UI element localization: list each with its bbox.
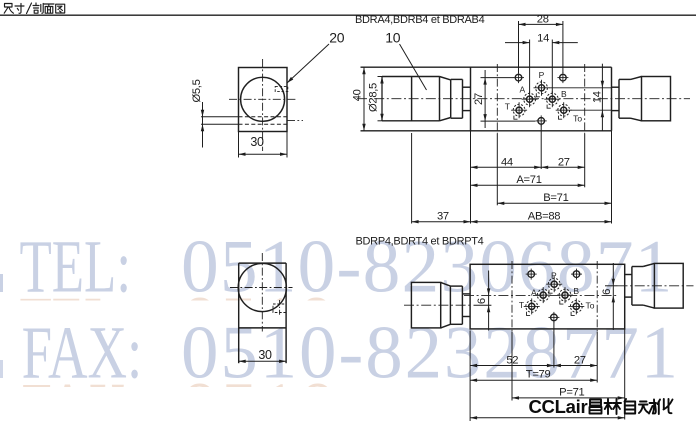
svg-text:28: 28: [537, 14, 549, 26]
bottom left knob taper bottom: [441, 324, 451, 328]
svg-text:14: 14: [537, 32, 549, 44]
bottom right knob neck top: [632, 266, 643, 268]
centerline vertical (top-left block): [262, 59, 264, 151]
arrowheads B=71: [497, 202, 504, 205]
arrowheads dia28.5: [380, 77, 383, 84]
dia28.5 dimension line / knob left face: [381, 77, 383, 121]
main axis top valve: [357, 98, 690, 100]
right knob taper bottom: [631, 118, 642, 121]
arrowheads 44: [471, 166, 478, 169]
arrowheads P=71: [512, 396, 519, 399]
hole extension line lower: [201, 123, 239, 125]
svg-text:27: 27: [558, 156, 570, 168]
arrowheads 6 left: [487, 288, 490, 295]
knob cylinder top (top valve left knob): [382, 76, 440, 78]
port A (top valve): [527, 96, 533, 102]
svg-text:6: 6: [601, 289, 613, 295]
dimension 27 tick lower: [481, 120, 536, 122]
knob section square (top-left block): [239, 68, 288, 132]
lower block dashed detail: [273, 304, 286, 313]
hidden hole line upper (top-left block): [239, 116, 288, 118]
bolt hole bottom (top valve): [538, 118, 545, 125]
company glyph hua (化): [658, 399, 673, 414]
dashed detail on knob circle (top-left): [275, 86, 288, 91]
watermark echo row 2 (faint warm glyph tops): [22, 368, 405, 430]
bottom right knob neck bottom: [632, 304, 643, 306]
svg-text:6: 6: [476, 298, 488, 304]
dimension 30 line (lower block): [239, 360, 286, 362]
svg-text:AB=88: AB=88: [528, 210, 560, 222]
cavity axis left (top valve): [496, 64, 498, 134]
bottom valve cavity axis left: [511, 261, 513, 332]
bottom left knob taper top: [441, 282, 451, 286]
bottom valve cavity axis right: [596, 261, 598, 332]
port P (top valve): [538, 85, 544, 91]
dimension 27 line (bottom valve): [554, 365, 597, 367]
dimension P=71 line: [512, 397, 625, 399]
bottom left knob taper end face: [449, 286, 451, 324]
bottom left knob neck top: [450, 285, 462, 287]
dimension overall line (bottom valve): [470, 417, 625, 419]
arrowheads 30 top block: [239, 153, 246, 156]
arrowheads 6 right: [612, 279, 615, 286]
svg-text:27: 27: [473, 93, 485, 105]
dimension 27 line (below): [541, 166, 585, 168]
extension 37 left: [411, 133, 413, 224]
arrowheads 30 lower block: [239, 360, 246, 363]
lower block horizontal centerline: [230, 287, 293, 289]
dimension 6 left tick (knob axis): [474, 304, 492, 306]
extension cavity right down: [584, 134, 586, 187]
knob cylinder end face: [439, 77, 441, 121]
dimension 30 extension left (top-left block): [238, 132, 240, 158]
dimension 14 right-side line: [601, 64, 603, 131]
bolt hole top-right (top valve): [560, 74, 567, 81]
title glyph cun (寸): [15, 4, 24, 14]
svg-text:P: P: [551, 271, 557, 281]
arrowheads A=71: [471, 184, 478, 187]
right knob collar top (top valve): [612, 86, 620, 88]
svg-text:B=71: B=71: [543, 192, 568, 204]
extension cavity left down (bottom valve): [511, 332, 513, 401]
extension body left face down (bottom valve): [469, 331, 471, 422]
title glyph pou (剖): [33, 3, 43, 13]
svg-text:P: P: [539, 70, 545, 80]
svg-text:CCLair: CCLair: [529, 396, 588, 417]
svg-text:T=79: T=79: [526, 369, 551, 381]
lower block vertical centerline: [261, 253, 263, 332]
svg-text:B: B: [561, 89, 567, 99]
watermark left-edge fragment 1: [0, 274, 3, 292]
dimension 30 line (top-left block): [239, 153, 288, 155]
arrowheads 27 inside body: [483, 78, 486, 85]
hidden hole line lower (top-left block): [239, 123, 288, 125]
lower block circle: [238, 263, 286, 311]
bottom valve body: [470, 264, 625, 329]
taper end face: [450, 80, 452, 118]
dimension 6 right tick (knob axis): [605, 285, 618, 287]
title glyph chi (尺): [4, 4, 13, 14]
watermark echo row 1 (faint warm glyph tops): [20, 282, 402, 365]
bottom left knob axis: [404, 304, 470, 306]
dimension 6 left line: [488, 271, 490, 331]
arrowheads 27 bottom valve: [554, 364, 561, 367]
dimension 52 line: [470, 365, 554, 367]
svg-text:T: T: [519, 300, 524, 310]
dimension AB=88 line: [471, 221, 612, 223]
arrowheads T=79: [470, 379, 477, 382]
extension body left face down: [470, 131, 472, 224]
arrowheads 28: [519, 23, 526, 26]
extension body right face down: [611, 131, 613, 224]
lower block top edge: [239, 262, 286, 264]
dimension 27 line (inside top body): [484, 70, 486, 128]
extension center (bottom bolt) down: [540, 125, 542, 170]
bottom right knob cap: [654, 263, 683, 308]
port B (top valve): [549, 96, 555, 102]
company glyph lin (林): [605, 399, 622, 414]
arrowheads 37: [412, 220, 419, 223]
dimension 28 line: [519, 23, 563, 25]
bottom right knob collar bottom: [625, 296, 632, 298]
bottom left knob collar bottom: [462, 316, 470, 318]
top valve body left face: [470, 67, 472, 131]
arrowheads 14 top: [523, 41, 530, 44]
svg-text:37: 37: [437, 210, 449, 222]
dia5.5 dimension line: [202, 102, 204, 148]
port P (bottom valve): [551, 281, 557, 287]
dia28.5 extension overshoot upper: [378, 76, 383, 78]
svg-text:A: A: [531, 287, 537, 297]
title glyph tu (图): [56, 4, 65, 13]
dimension 28 extension left: [518, 21, 520, 73]
dimension 40 line: [363, 67, 365, 131]
hole extension line upper: [201, 116, 239, 118]
company glyph zi (自): [625, 399, 636, 414]
centerline horizontal (top-left block): [229, 98, 296, 100]
svg-text:B: B: [573, 286, 579, 296]
company glyph dong (动): [639, 400, 656, 414]
bottom right knob taper top: [643, 263, 654, 266]
svg-text:40: 40: [352, 89, 364, 101]
top valve body top edge with 40 extension: [361, 66, 612, 68]
port To (top valve): [561, 107, 567, 113]
lower block right side: [285, 263, 287, 363]
dimension 27 tick upper: [481, 77, 514, 79]
lower block left side: [238, 263, 240, 363]
watermark left-edge fragment 2: [0, 360, 3, 378]
knob taper bottom: [440, 118, 451, 121]
arrowheads AB=88: [471, 220, 478, 223]
dimension 14 line with tails: [505, 42, 530, 44]
svg-text:A=71: A=71: [516, 174, 541, 186]
svg-text:To: To: [573, 113, 582, 123]
hole axis dash-dot right: [287, 119, 303, 121]
svg-text:14: 14: [591, 91, 603, 103]
dimension T=79 line: [470, 379, 597, 381]
port T (bottom valve): [529, 303, 535, 309]
bottom right knob taper bottom: [643, 305, 654, 308]
right knob neck bottom: [619, 117, 631, 119]
dimension A=71 line: [471, 184, 585, 186]
top valve body right face: [611, 67, 613, 131]
svg-text:T: T: [505, 101, 510, 111]
leader line for label 10: [400, 44, 427, 90]
dimension 14 right tick lower (T row): [571, 109, 612, 111]
title underline: [0, 14, 696, 16]
right knob collar bottom: [612, 110, 620, 112]
svg-text:Ø28,5: Ø28,5: [368, 83, 380, 112]
svg-text:27: 27: [574, 355, 586, 367]
arrowheads 14 right: [601, 81, 604, 88]
dimension 14 right tick upper (P row): [549, 87, 611, 89]
arrowheads 27 below: [541, 166, 548, 169]
company glyph chang (昌): [590, 400, 602, 414]
svg-text:Ø5,5: Ø5,5: [191, 79, 203, 102]
svg-text:20: 20: [329, 30, 344, 46]
collar bottom: [463, 110, 471, 112]
collar top (top valve left): [463, 86, 471, 88]
svg-text:52: 52: [506, 355, 518, 367]
title glyph mian (面): [44, 4, 54, 13]
svg-text:30: 30: [250, 135, 264, 149]
bolt hole bottom (bottom valve): [551, 314, 558, 321]
dimension 28 extension right: [562, 21, 564, 73]
top valve body bottom edge with 40 extension: [361, 130, 612, 132]
svg-text:44: 44: [501, 156, 513, 168]
port B (bottom valve): [562, 292, 568, 298]
arrowheads dia5.5: [201, 110, 204, 117]
svg-text:BDRP4,BDRT4 et BDRPT4: BDRP4,BDRT4 et BDRPT4: [356, 235, 484, 247]
svg-text:30: 30: [258, 348, 272, 362]
neck top (top valve left): [451, 78, 463, 80]
neck end face: [462, 79, 464, 118]
svg-text:BDRA4,BDRB4 et BDRAB4: BDRA4,BDRB4 et BDRAB4: [355, 14, 485, 26]
dimension B=71 line: [497, 202, 611, 204]
bottom left knob collar top: [462, 293, 470, 295]
svg-text:10: 10: [385, 30, 400, 46]
bottom valve left knob cap: [411, 282, 440, 328]
bolt hole top-right (bottom valve): [573, 271, 580, 278]
right knob neck top: [619, 78, 631, 80]
bolt hole top-left (top valve): [515, 74, 522, 81]
dimension 14 extension right (B): [551, 40, 553, 94]
dimension 6 right line: [612, 263, 614, 330]
cavity axis right (top valve): [584, 64, 586, 134]
knob cylinder bottom: [382, 120, 440, 122]
arrowheads 52: [470, 364, 477, 367]
right knob neck face: [618, 79, 620, 118]
right knob cap (top valve): [642, 77, 671, 121]
dimension 37 line: [412, 221, 471, 223]
bottom right knob neck face: [631, 267, 633, 306]
dimension 14 extension left (A): [529, 40, 531, 94]
extension cavity right down (bottom valve): [596, 332, 598, 383]
right knob taper top: [631, 77, 642, 80]
port A (bottom valve): [540, 292, 546, 298]
knob knurl divider: [411, 77, 413, 121]
port T (top valve): [516, 107, 522, 113]
arrowhead leader 20: [287, 77, 293, 83]
bolt hole top-left (bottom valve): [528, 271, 535, 278]
svg-text:To: To: [586, 301, 595, 311]
bottom right knob collar top: [625, 274, 632, 276]
arrowheads overall bottom: [470, 416, 477, 419]
lower block detail axis: [279, 300, 281, 316]
bottom left knob neck bottom: [450, 323, 462, 325]
dimension 44 line: [471, 166, 542, 168]
bottom right knob axis: [618, 285, 694, 287]
extension center down (bottom valve): [553, 321, 555, 368]
bottom left knob neck end face: [461, 286, 463, 324]
extension body right face down (bottom valve): [624, 329, 626, 420]
knob taper top: [440, 77, 451, 80]
svg-text:A: A: [519, 84, 525, 94]
dia28.5 extension overshoot lower: [378, 120, 383, 122]
extension cavity left down: [496, 134, 498, 205]
title slash: [27, 3, 32, 14]
neck bottom: [451, 117, 463, 119]
arrowheads 40: [362, 67, 365, 74]
lower block divider: [239, 327, 286, 329]
port To (bottom valve): [573, 303, 579, 309]
leader line for label 20: [287, 44, 329, 83]
knob circle (top-left block): [241, 77, 285, 121]
dimension 30 extension right (top-left block): [286, 132, 288, 158]
bottom valve pattern axis: [464, 294, 619, 296]
